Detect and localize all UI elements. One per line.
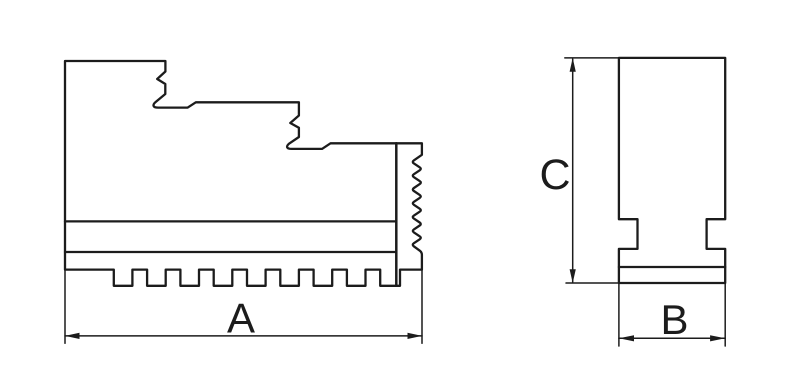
dimension B left arrowhead xyxy=(619,335,634,341)
dimension A right arrowhead xyxy=(408,333,423,339)
dimension B line xyxy=(619,337,725,339)
dimension C bottom arrowhead xyxy=(570,269,576,283)
dimension A left arrowhead xyxy=(65,333,80,339)
dimension B right arrowhead xyxy=(710,335,725,341)
dimension A right extension line xyxy=(421,270,423,344)
side-view internal line: base band bottom xyxy=(65,251,395,253)
side-view internal vertical: serrated block boundary xyxy=(395,143,398,285)
front-view internal line: base band xyxy=(619,266,725,268)
dimension C line xyxy=(572,59,574,282)
dimension B right extension line xyxy=(724,283,726,346)
dimension B left extension line xyxy=(618,283,620,346)
svg-text:A: A xyxy=(227,295,255,342)
dimension C bottom extension line xyxy=(566,282,619,284)
dimension C top extension line xyxy=(565,57,619,59)
side-view internal line: base band top xyxy=(65,220,395,222)
dimension C top arrowhead xyxy=(570,58,576,72)
side-view jaw outline xyxy=(65,61,422,286)
svg-text:B: B xyxy=(660,296,688,343)
dimension A left extension line xyxy=(64,270,66,344)
svg-text:C: C xyxy=(539,151,570,199)
front-view jaw outline xyxy=(619,58,725,283)
dimension A line xyxy=(65,335,422,337)
